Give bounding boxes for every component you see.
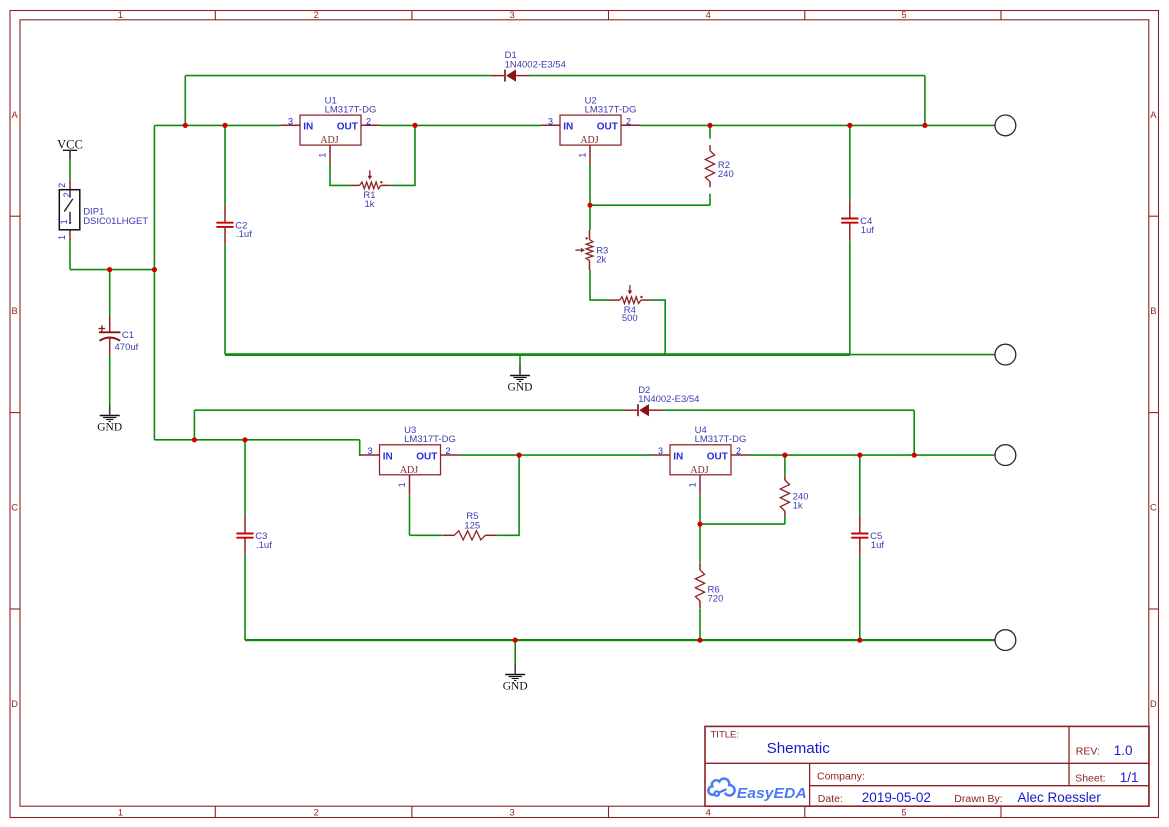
svg-text:TITLE:: TITLE: — [711, 730, 740, 741]
svg-text:REV:: REV: — [1076, 746, 1100, 758]
svg-text:GND: GND — [508, 382, 533, 394]
svg-text:LM317T-DG: LM317T-DG — [325, 105, 377, 116]
svg-text:1k: 1k — [793, 501, 803, 512]
svg-text:3: 3 — [658, 446, 663, 456]
svg-text:4: 4 — [706, 808, 711, 818]
svg-text:2k: 2k — [596, 254, 606, 265]
svg-text:Company:: Company: — [817, 771, 865, 783]
svg-text:1: 1 — [688, 482, 698, 487]
svg-text:3: 3 — [367, 446, 372, 456]
svg-text:1k: 1k — [364, 199, 374, 210]
svg-text:470uf: 470uf — [115, 342, 139, 353]
svg-text:2: 2 — [626, 116, 631, 126]
svg-text:A: A — [11, 110, 18, 120]
svg-text:EasyEDA: EasyEDA — [737, 785, 807, 802]
svg-text:IN: IN — [563, 122, 573, 133]
svg-text:2: 2 — [57, 183, 67, 188]
svg-text:OUT: OUT — [416, 451, 437, 462]
svg-text:4: 4 — [706, 10, 711, 20]
svg-text:OUT: OUT — [707, 451, 728, 462]
svg-text:C1: C1 — [122, 330, 134, 341]
svg-text:Shematic: Shematic — [767, 740, 831, 757]
svg-text:1.0: 1.0 — [1114, 743, 1133, 758]
svg-text:IN: IN — [303, 122, 313, 133]
svg-text:LM317T-DG: LM317T-DG — [695, 434, 747, 445]
svg-text:2: 2 — [314, 10, 319, 20]
svg-text:DSIC01LHGET: DSIC01LHGET — [83, 216, 148, 227]
svg-text:ADJ: ADJ — [580, 135, 598, 146]
svg-text:5: 5 — [901, 10, 906, 20]
svg-text:IN: IN — [673, 451, 683, 462]
svg-text:2: 2 — [445, 446, 450, 456]
svg-text:1uf: 1uf — [871, 540, 885, 551]
svg-text:Alec Roessler: Alec Roessler — [1018, 790, 1102, 805]
svg-text:D: D — [1150, 699, 1157, 709]
svg-text:3: 3 — [548, 116, 553, 126]
svg-text:3: 3 — [510, 808, 515, 818]
svg-text:LM317T-DG: LM317T-DG — [585, 105, 637, 116]
svg-text:3: 3 — [288, 116, 293, 126]
svg-text:ADJ: ADJ — [690, 465, 708, 476]
svg-text:720: 720 — [708, 594, 724, 605]
svg-text:OUT: OUT — [597, 122, 618, 133]
svg-text:C: C — [11, 503, 18, 513]
svg-text:GND: GND — [503, 681, 528, 693]
svg-text:500: 500 — [622, 313, 638, 324]
svg-text:.1uf: .1uf — [256, 540, 272, 551]
svg-text:B: B — [1150, 306, 1156, 316]
svg-text:OUT: OUT — [337, 122, 358, 133]
svg-text:B: B — [11, 306, 17, 316]
svg-text:2: 2 — [314, 808, 319, 818]
svg-text:3: 3 — [510, 10, 515, 20]
svg-text:2019-05-02: 2019-05-02 — [862, 790, 931, 805]
svg-text:1: 1 — [397, 482, 407, 487]
svg-text:1N4002-E3/54: 1N4002-E3/54 — [638, 394, 699, 405]
svg-text:D: D — [11, 699, 18, 709]
svg-text:Drawn By:: Drawn By: — [954, 793, 1002, 805]
svg-text:A: A — [1150, 110, 1157, 120]
svg-text:1: 1 — [318, 153, 328, 158]
svg-text:1: 1 — [118, 10, 123, 20]
svg-text:1: 1 — [59, 219, 69, 224]
svg-text:1: 1 — [57, 235, 67, 240]
svg-text:1uf: 1uf — [861, 225, 875, 236]
svg-text:Sheet:: Sheet: — [1075, 773, 1105, 785]
svg-text:2: 2 — [62, 192, 72, 197]
svg-text:5: 5 — [901, 808, 906, 818]
svg-text:IN: IN — [383, 451, 393, 462]
svg-text:C: C — [1150, 503, 1157, 513]
svg-text:1: 1 — [118, 808, 123, 818]
svg-text:1/1: 1/1 — [1120, 770, 1139, 785]
svg-text:1N4002-E3/54: 1N4002-E3/54 — [505, 59, 566, 70]
svg-text:GND: GND — [97, 422, 122, 434]
svg-text:2: 2 — [736, 446, 741, 456]
svg-text:ADJ: ADJ — [400, 465, 418, 476]
svg-text:2: 2 — [366, 116, 371, 126]
svg-text:240: 240 — [718, 169, 734, 180]
svg-text:VCC: VCC — [57, 137, 83, 151]
svg-text:.1uf: .1uf — [236, 229, 252, 240]
svg-text:ADJ: ADJ — [320, 135, 338, 146]
svg-text:Date:: Date: — [818, 793, 843, 805]
svg-text:LM317T-DG: LM317T-DG — [404, 434, 456, 445]
svg-text:1: 1 — [578, 153, 588, 158]
svg-text:125: 125 — [464, 520, 480, 531]
